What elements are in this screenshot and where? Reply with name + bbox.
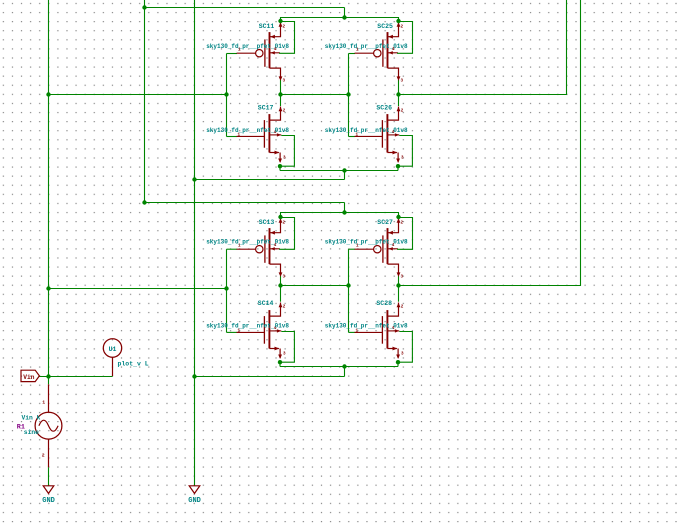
junction drain rail 1 stub xyxy=(342,15,346,19)
junction bus1 gate R xyxy=(346,92,350,96)
svg-text:GND: GND xyxy=(42,497,55,505)
junction bus1 mid R xyxy=(396,92,400,96)
svg-text:SC25: SC25 xyxy=(377,23,393,30)
junction gnd link 2 xyxy=(192,374,196,378)
svg-text:Vin k: Vin k xyxy=(22,415,41,422)
svg-text:sky130_fd_pr__nfet_01v8: sky130_fd_pr__nfet_01v8 xyxy=(206,127,289,134)
svg-text:SC13: SC13 xyxy=(259,219,275,226)
junction drain rail 2 stub xyxy=(342,210,346,214)
svg-text:2: 2 xyxy=(42,453,45,459)
wire gate jog SC26 xyxy=(349,136,356,138)
transistor SC17 sky130_fd_pr__nfet_01v8 xyxy=(237,107,295,171)
junction bus3 mid R xyxy=(396,283,400,287)
global label Vin xyxy=(21,370,39,381)
wire pmos drain rail group2 xyxy=(281,213,399,218)
transistor SC13 sky130_fd_pr__pfet_01v8 xyxy=(237,215,295,280)
wire bus3 segment A xyxy=(49,288,227,290)
svg-text:SC27: SC27 xyxy=(377,219,393,226)
junction top bus xyxy=(142,5,146,9)
wire bus1 right segment up to top edge xyxy=(399,0,567,95)
wire Vin vertical left xyxy=(48,0,50,384)
wire gate vertical g2 right xyxy=(348,249,350,332)
junction Vin node xyxy=(46,374,50,378)
wire bus3 segment B xyxy=(281,285,349,287)
junction gnd link 1 xyxy=(192,177,196,181)
svg-text:Vin: Vin xyxy=(23,374,34,381)
junction rail2 stub xyxy=(342,364,346,368)
wire gate jog SC14 xyxy=(227,331,238,333)
ground symbol right xyxy=(189,486,200,494)
svg-text:sky130_fd_pr__nfet_01v8: sky130_fd_pr__nfet_01v8 xyxy=(325,127,408,134)
svg-text:SC11: SC11 xyxy=(259,23,275,30)
wire gate jog SC17 xyxy=(227,136,238,138)
svg-text:1: 1 xyxy=(42,399,45,405)
voltage source V1 sine xyxy=(48,384,50,412)
transistor SC26 sky130_fd_pr__nfet_01v8 xyxy=(355,107,413,171)
junction bus1 left xyxy=(46,92,50,96)
wire gate jog SC25 xyxy=(349,53,356,55)
wire mid vertical g2 right xyxy=(398,276,400,302)
wire gate jog SC27 xyxy=(349,248,356,250)
wire nmos source rail group2 xyxy=(280,366,398,368)
wire bus1 segment A xyxy=(49,94,227,96)
junction bus3 mid L xyxy=(278,283,282,287)
transistor SC28 sky130_fd_pr__nfet_01v8 xyxy=(355,303,413,367)
wire mid vertical g1 right xyxy=(398,80,400,106)
wire gate vertical g1 right xyxy=(348,54,350,137)
svg-text:sky130_fd_pr__pfet_01v8: sky130_fd_pr__pfet_01v8 xyxy=(206,239,289,246)
wire GND vertical xyxy=(194,0,196,486)
junction bus3 gate R xyxy=(346,283,350,287)
wire gate jog SC13 xyxy=(227,248,238,250)
wire mid vertical g2 left xyxy=(280,276,282,302)
wire gate jog SC11 xyxy=(227,53,238,55)
svg-text:plot_v L: plot_v L xyxy=(118,360,149,367)
transistor SC14 sky130_fd_pr__nfet_01v8 xyxy=(237,303,295,367)
junction rail1 stub xyxy=(342,168,346,172)
svg-text:sky130_fd_pr__pfet_01v8: sky130_fd_pr__pfet_01v8 xyxy=(325,43,408,50)
probe U1 plot_v xyxy=(103,339,121,357)
wire bus2 xyxy=(145,202,345,204)
wire stub rail1 down xyxy=(344,171,346,180)
junction bus3 left xyxy=(46,286,50,290)
svg-text:SC28: SC28 xyxy=(376,300,392,307)
wire stub rail2 down xyxy=(344,367,346,377)
svg-text:SC26: SC26 xyxy=(376,105,392,112)
wire pmos drain rail group1 xyxy=(281,18,399,22)
svg-text:sky130_fd_pr__nfet_01v8: sky130_fd_pr__nfet_01v8 xyxy=(206,323,289,330)
wire gnd link group2 xyxy=(195,376,345,378)
wire top bus xyxy=(145,7,345,9)
svg-text:sine: sine xyxy=(24,429,39,436)
wire bus3 right segment up to top edge xyxy=(399,0,581,286)
ground symbol left xyxy=(43,486,54,494)
wire bus1 segment B xyxy=(281,94,349,96)
wire stub top-bus to drain rail 1 xyxy=(344,8,346,18)
svg-text:SC17: SC17 xyxy=(258,105,274,112)
wire gate jog SC28 xyxy=(349,331,356,333)
wire gnd link group1 xyxy=(195,179,345,181)
wire V1 to gnd xyxy=(48,467,50,485)
svg-text:sky130_fd_pr__nfet_01v8: sky130_fd_pr__nfet_01v8 xyxy=(325,323,408,330)
svg-text:SC14: SC14 xyxy=(258,300,274,307)
transistor SC11 sky130_fd_pr__pfet_01v8 xyxy=(237,19,295,84)
wire Vin label to probe xyxy=(39,376,112,378)
junction bus1 mid L xyxy=(278,92,282,96)
transistor SC25 sky130_fd_pr__pfet_01v8 xyxy=(355,19,413,84)
junction bus1 gate L xyxy=(224,92,228,96)
wire nmos source rail group1 xyxy=(280,170,398,172)
svg-text:U1: U1 xyxy=(109,346,117,353)
svg-text:sky130_fd_pr__pfet_01v8: sky130_fd_pr__pfet_01v8 xyxy=(206,43,289,50)
junction bus2 corner xyxy=(142,200,146,204)
wire stub bus2 to drain rail 2 xyxy=(344,203,346,213)
svg-text:GND: GND xyxy=(188,497,201,505)
junction bus3 gate L xyxy=(224,286,228,290)
wire net-A vertical xyxy=(144,0,146,203)
wire gate vertical g2 left xyxy=(226,249,228,332)
transistor SC27 sky130_fd_pr__pfet_01v8 xyxy=(355,215,413,280)
wire mid vertical g1 left xyxy=(280,80,282,106)
svg-text:sky130_fd_pr__pfet_01v8: sky130_fd_pr__pfet_01v8 xyxy=(325,239,408,246)
wire gate vertical g1 left xyxy=(226,54,228,137)
